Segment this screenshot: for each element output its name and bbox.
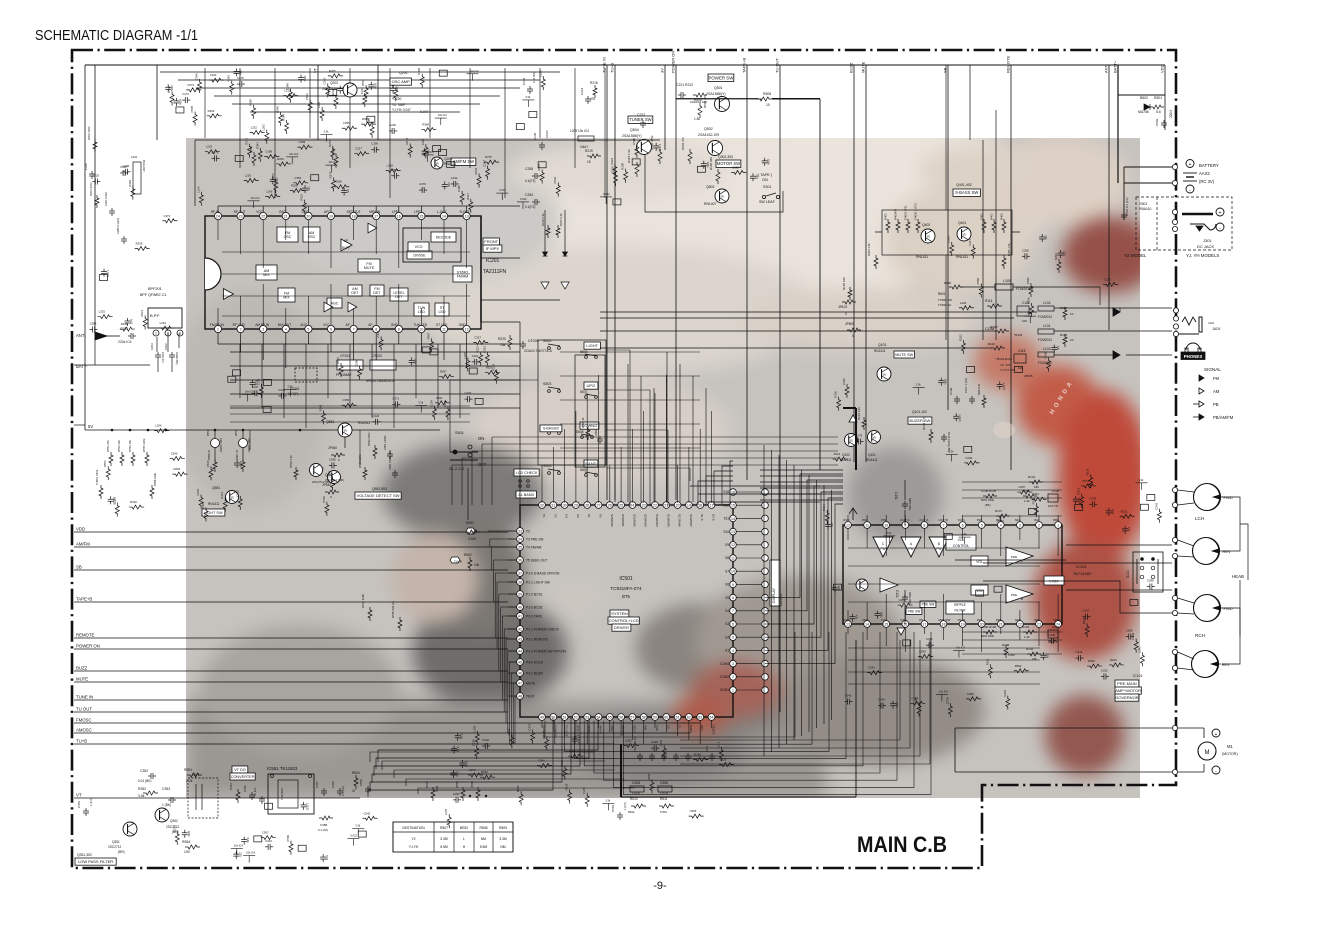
svg-text:C272: C272 — [469, 768, 476, 772]
svg-text:JP540: JP540 — [322, 483, 331, 487]
svg-text:SIGNAL: SIGNAL — [1204, 367, 1221, 372]
svg-text:CONTROL+LCD: CONTROL+LCD — [609, 618, 639, 623]
svg-text:MPX IN: MPX IN — [369, 210, 381, 214]
resistors R507 R508 R509 vertical — [431, 787, 435, 801]
svg-text:22: 22 — [653, 503, 657, 507]
svg-text:C393: C393 — [732, 165, 739, 169]
svg-text:DATA: DATA — [689, 725, 693, 734]
svg-text:R218 6.2k: R218 6.2k — [541, 213, 545, 226]
svg-text:S25/KM0: S25/KM0 — [610, 514, 614, 527]
svg-text:C285 0.1(FZ): C285 0.1(FZ) — [116, 218, 120, 234]
svg-text:C266: C266 — [371, 142, 378, 146]
svg-text:0.1 (FZ): 0.1 (FZ) — [318, 828, 328, 832]
net tag TU+B — [450, 557, 460, 563]
svg-text:C598: C598 — [632, 138, 636, 145]
svg-text:47k: 47k — [1056, 346, 1060, 351]
svg-text:19: 19 — [961, 622, 965, 626]
svg-text:9: 9 — [398, 327, 400, 331]
svg-text:R640: R640 — [944, 281, 952, 285]
svg-text:L: L — [463, 837, 465, 841]
svg-text:COM1: COM1 — [720, 688, 729, 692]
svg-text:AM RF IN: AM RF IN — [255, 323, 270, 327]
IC201 internal wire mesh — [217, 220, 219, 240]
svg-text:C317: C317 — [391, 168, 398, 172]
svg-text:DET: DET — [395, 295, 403, 299]
svg-text:14: 14 — [442, 214, 446, 218]
svg-text:XOUT: XOUT — [632, 725, 636, 734]
label PHONES — [1181, 352, 1205, 360]
wires IC501 top pins upward — [541, 465, 543, 503]
svg-text:Q552,553: Q552,553 — [372, 487, 387, 491]
svg-text:R404 1.5k: R404 1.5k — [867, 243, 871, 256]
svg-text:POWER ON: POWER ON — [76, 644, 100, 649]
svg-text:C104: C104 — [1052, 625, 1060, 629]
component cluster amp right upper — [1089, 503, 1092, 505]
svg-text:Q351: Q351 — [112, 840, 120, 844]
svg-text:R227: R227 — [476, 346, 480, 353]
svg-text:FM RF IN: FM RF IN — [210, 323, 225, 327]
svg-text:C4030.1 (FZ): C4030.1 (FZ) — [914, 203, 918, 220]
svg-text:R369: R369 — [208, 109, 215, 113]
svg-text:8: 8 — [923, 523, 925, 527]
wire sbass feeds — [875, 65, 1020, 340]
svg-text:C361: C361 — [926, 637, 933, 641]
svg-text:CF202: CF202 — [372, 354, 382, 358]
svg-text:2SC2712A: 2SC2712A — [322, 87, 338, 91]
svg-text:1: 1 — [1057, 523, 1059, 527]
svg-text:C232: C232 — [1101, 669, 1108, 673]
svg-text:S18/KM5: S18/KM5 — [666, 514, 670, 527]
svg-text:DC JACK: DC JACK — [1197, 244, 1214, 249]
svg-text:TX528 1K: TX528 1K — [938, 303, 951, 307]
svg-text:TAPE+B: TAPE+B — [76, 597, 92, 602]
svg-text:14: 14 — [865, 622, 869, 626]
svg-text:L278: L278 — [444, 808, 448, 815]
capacitor row C507-C512 — [639, 753, 641, 756]
capacitor C102 680s — [904, 594, 906, 597]
svg-text:0.01: 0.01 — [456, 747, 460, 753]
svg-text:R246: R246 — [1082, 617, 1086, 624]
svg-text:R557 47: R557 47 — [235, 449, 239, 460]
resistor R556 R557 47 — [213, 459, 217, 472]
svg-text:49: 49 — [540, 715, 544, 719]
svg-text:RN1411: RN1411 — [956, 255, 968, 259]
svg-text:57: 57 — [630, 715, 634, 719]
svg-text:C227: C227 — [355, 147, 362, 151]
svg-text:11: 11 — [865, 523, 869, 527]
svg-text:56: 56 — [619, 715, 623, 719]
svg-text:23: 23 — [239, 214, 243, 218]
net tag VDD — [466, 528, 475, 534]
svg-text:VOL: VOL — [976, 560, 983, 564]
svg-text:C590: C590 — [919, 649, 926, 653]
svg-text:RF OUT: RF OUT — [234, 210, 246, 214]
svg-text:T5 SEEK OUT: T5 SEEK OUT — [526, 558, 547, 562]
component cluster right col — [1075, 496, 1077, 499]
svg-text:3.3M: 3.3M — [499, 837, 507, 841]
svg-text:C111 1000p BK): C111 1000p BK) — [947, 432, 951, 452]
svg-text:C573: C573 — [271, 173, 275, 180]
svg-text:L232: L232 — [251, 125, 258, 129]
svg-text:S11: S11 — [724, 517, 730, 521]
svg-text:C299: C299 — [389, 123, 396, 127]
svg-text:RF GND: RF GND — [233, 323, 246, 327]
svg-text:C501 0.1 (FZ): C501 0.1 (FZ) — [1125, 197, 1129, 216]
svg-text:C220: C220 — [373, 414, 380, 418]
svg-text:R565 82k (F): R565 82k (F) — [391, 601, 395, 618]
svg-text:P3-1 BUZR: P3-1 BUZR — [526, 671, 543, 675]
svg-text:R243: R243 — [1110, 658, 1117, 662]
svg-text:11: 11 — [442, 327, 446, 331]
svg-text:C4021 (FZ): C4021 (FZ) — [904, 206, 908, 220]
svg-text:C505: C505 — [632, 781, 640, 785]
svg-text:48: 48 — [518, 694, 522, 698]
svg-text:0.01 BK): 0.01 BK) — [532, 72, 536, 83]
svg-text:Q504: Q504 — [630, 128, 639, 132]
svg-text:1K: 1K — [1070, 338, 1074, 342]
svg-text:2SA1588(Y): 2SA1588(Y) — [706, 92, 726, 96]
wire grid right of LCD — [690, 485, 820, 487]
HONDA lettering on fuel tank — [1049, 381, 1074, 416]
svg-text:C359: C359 — [294, 176, 301, 180]
svg-text:C525: C525 — [172, 825, 176, 832]
svg-text:10: 10 — [731, 570, 735, 574]
svg-text:R515: R515 — [299, 194, 303, 201]
svg-text:0.01: 0.01 — [325, 855, 329, 861]
svg-text:32: 32 — [540, 503, 544, 507]
svg-text:L235: L235 — [421, 139, 425, 146]
svg-text:ST LED: ST LED — [436, 323, 448, 327]
svg-text:R321: R321 — [985, 658, 989, 665]
svg-text:L266: L266 — [266, 189, 273, 193]
svg-text:BUFF: BUFF — [342, 246, 350, 250]
svg-text:0.01: 0.01 — [1111, 509, 1115, 515]
svg-text:C101: C101 — [894, 492, 898, 500]
svg-text:C327: C327 — [474, 335, 481, 339]
svg-text:10s IC4: 10s IC4 — [250, 196, 259, 200]
svg-text:3.5k: 3.5k — [138, 794, 145, 798]
resistor R506 470k — [658, 149, 662, 164]
svg-text:3: 3 — [1019, 523, 1021, 527]
border crossing pins for speakers — [1172, 487, 1177, 492]
svg-text:1 (FZ): 1 (FZ) — [1002, 383, 1006, 390]
svg-text:220/4: 220/4 — [1169, 110, 1173, 118]
svg-text:100s: 100s — [464, 761, 468, 767]
svg-text:0: 0 — [852, 334, 854, 338]
svg-text:R203 100k: R203 100k — [87, 126, 91, 140]
svg-text:3.3k: 3.3k — [525, 95, 531, 99]
svg-text:3.3k: 3.3k — [886, 531, 892, 535]
svg-text:MUTE: MUTE — [861, 61, 866, 73]
svg-text:C354: C354 — [229, 783, 233, 790]
svg-text:R654: R654 — [352, 771, 360, 775]
svg-text:100s: 100s — [880, 612, 884, 618]
svg-text:J301: J301 — [1203, 238, 1212, 243]
big box around VCO/decode — [403, 228, 461, 262]
component cluster between power — [697, 166, 705, 172]
svg-text:R379: R379 — [328, 171, 332, 178]
svg-text:PF IN: PF IN — [958, 618, 966, 622]
svg-text:PW: PW — [862, 518, 867, 522]
svg-text:L294: L294 — [472, 725, 476, 732]
svg-text:C358: C358 — [320, 823, 328, 827]
svg-text:BATT+: BATT+ — [1113, 60, 1118, 73]
svg-text:3V: 3V — [660, 68, 665, 73]
svg-text:3.3k: 3.3k — [1138, 478, 1144, 482]
svg-text:18: 18 — [698, 503, 702, 507]
wire q553 drop — [344, 437, 346, 448]
wire heavy bottom rail — [620, 744, 622, 797]
svg-text:L105: L105 — [1003, 279, 1011, 283]
svg-text:26: 26 — [608, 503, 612, 507]
svg-text:VCC: VCC — [323, 323, 330, 327]
svg-text:C356: C356 — [343, 398, 350, 402]
label AMFM SW box — [451, 158, 476, 165]
svg-text:C217: C217 — [968, 238, 972, 245]
wire power row — [676, 98, 758, 100]
motor M1 — [1198, 742, 1216, 760]
svg-text:CF201: CF201 — [340, 354, 350, 358]
svg-text:0: 0 — [845, 312, 847, 316]
svg-text:4: 4 — [732, 649, 734, 653]
svg-text:53: 53 — [585, 715, 589, 719]
svg-text:100s: 100s — [767, 159, 771, 165]
svg-text:C107 1 (FZ): C107 1 (FZ) — [964, 378, 968, 393]
svg-text:R223: R223 — [537, 163, 541, 170]
svg-text:220: 220 — [447, 182, 451, 187]
svg-text:BE52: BE52 — [460, 826, 468, 830]
svg-text:17: 17 — [922, 622, 926, 626]
svg-text:33: 33 — [518, 529, 522, 533]
svg-text:OSC: OSC — [301, 210, 309, 214]
svg-text:B502: B502 — [1140, 96, 1148, 100]
svg-text:DESTINATION: DESTINATION — [402, 826, 425, 830]
svg-text:SML-110WT: SML-110WT — [219, 438, 223, 453]
svg-text:GOVERNOR: GOVERNOR — [1115, 695, 1138, 700]
ceramic filter CF201 PF5456A7 — [337, 360, 363, 370]
svg-text:GND: GND — [459, 323, 467, 327]
svg-text:(BK): (BK) — [985, 503, 991, 507]
svg-text:C388: C388 — [1147, 578, 1154, 582]
transistor Q351 — [123, 822, 137, 836]
wire grid below IC201 — [239, 344, 241, 398]
svg-text:17: 17 — [374, 214, 378, 218]
svg-text:TA2111FN: TA2111FN — [483, 269, 506, 275]
svg-text:SPE10.7MS2E2D-A: SPE10.7MS2E2D-A — [366, 379, 395, 383]
svg-text:R335: R335 — [565, 783, 569, 790]
svg-text:1000s BK): 1000s BK) — [175, 352, 179, 365]
svg-text:C388: C388 — [90, 322, 97, 326]
svg-text:LCH: LCH — [1195, 516, 1204, 521]
svg-text:LED: LED — [439, 310, 446, 314]
wires phones feed — [600, 312, 1037, 348]
svg-text:100s: 100s — [187, 831, 191, 837]
svg-text:6: 6 — [962, 523, 964, 527]
svg-text:C340: C340 — [120, 165, 127, 169]
svg-text:TH551 C010: TH551 C010 — [95, 469, 99, 485]
ceramic filter CF205 CDA10.7MG77A-A — [522, 341, 524, 344]
svg-text:5.5M: 5.5M — [480, 845, 488, 849]
svg-text:100s: 100s — [414, 358, 418, 364]
svg-text:C220: C220 — [1104, 277, 1111, 281]
svg-text:C382: C382 — [112, 497, 116, 504]
component cluster IC201 below2 — [432, 406, 436, 420]
svg-text:1K: 1K — [1070, 312, 1074, 316]
svg-text:L220: L220 — [960, 301, 967, 305]
svg-text:MUTE SW: MUTE SW — [895, 353, 913, 357]
svg-text:L260: L260 — [317, 101, 321, 108]
wire staircase to LCD connector — [688, 478, 733, 492]
svg-text:64: 64 — [710, 715, 714, 719]
svg-text:L-OUT: L-OUT — [437, 210, 447, 214]
svg-text:R406: R406 — [1000, 213, 1004, 220]
svg-text:C103: C103 — [1052, 489, 1060, 493]
svg-text:PW: PW — [977, 618, 982, 622]
svg-text:19: 19 — [687, 503, 691, 507]
svg-text:BT5: BT5 — [622, 594, 630, 599]
wire tuner row — [195, 139, 660, 141]
svg-text:ON: ON — [478, 436, 484, 441]
svg-text:10s IC4: 10s IC4 — [438, 113, 447, 117]
svg-text:PRE: PRE — [1011, 555, 1017, 559]
svg-text:10: 10 — [419, 327, 423, 331]
wire top VDD bus — [85, 64, 1165, 66]
svg-text:60: 60 — [664, 715, 668, 719]
svg-text:RN1411: RN1411 — [866, 458, 878, 462]
svg-text:R123 10k: R123 10k — [857, 407, 861, 420]
svg-text:6: 6 — [732, 622, 734, 626]
label TUNER SW — [628, 116, 653, 123]
svg-text:C221: C221 — [210, 73, 217, 77]
svg-text:MIX: MIX — [263, 273, 270, 277]
svg-text:R289: R289 — [249, 99, 253, 106]
svg-text:P1-0 S-BASS OFF/ON: P1-0 S-BASS OFF/ON — [526, 571, 560, 575]
svg-text:C244: C244 — [1076, 650, 1083, 654]
svg-text:R553 15k: R553 15k — [128, 439, 132, 452]
svg-text:C207 0.022: C207 0.022 — [104, 192, 108, 206]
svg-text:SYSTEM: SYSTEM — [611, 611, 627, 616]
svg-text:VCTL: VCTL — [958, 518, 966, 522]
svg-text:IC551 TK11823: IC551 TK11823 — [267, 766, 298, 771]
svg-text:10/4 TN: 10/4 TN — [1048, 504, 1058, 508]
svg-text:Q401,402: Q401,402 — [956, 183, 972, 187]
svg-text:BUZER SW: BUZER SW — [909, 418, 930, 423]
svg-text:VCC: VCC — [256, 210, 263, 214]
svg-text:R504 47k: R504 47k — [681, 137, 685, 150]
svg-text:C530: C530 — [206, 460, 210, 467]
svg-text:ON: ON — [762, 178, 768, 182]
svg-text:220s IC4: 220s IC4 — [161, 352, 165, 363]
component cluster tuner top-left — [237, 83, 240, 85]
svg-text:L229: L229 — [720, 758, 727, 762]
photo watermark — [170, 118, 1160, 820]
svg-text:9: 9 — [732, 583, 734, 587]
svg-text:47k: 47k — [307, 186, 311, 191]
svg-text:IC101: IC101 — [1076, 564, 1087, 569]
svg-text:S6: S6 — [725, 583, 729, 587]
svg-text:1.5k: 1.5k — [694, 117, 700, 121]
svg-text:3.3k: 3.3k — [418, 401, 424, 405]
svg-text:Q302,303: Q302,303 — [718, 155, 733, 159]
svg-text:AM IN: AM IN — [599, 725, 603, 734]
svg-text:C278: C278 — [212, 150, 219, 154]
svg-text:R99 8.2k: R99 8.2k — [977, 383, 981, 395]
svg-text:R402: R402 — [884, 213, 888, 220]
svg-text:0.1(FZ): 0.1(FZ) — [525, 205, 535, 209]
svg-text:R511: R511 — [660, 797, 668, 801]
svg-text:C540: C540 — [171, 451, 178, 455]
svg-text:PHONES: PHONES — [1184, 354, 1203, 359]
svg-text:T2: T2 — [526, 529, 530, 533]
svg-text:C109: C109 — [949, 387, 953, 395]
svg-text:5.5M: 5.5M — [440, 845, 448, 849]
svg-text:TUNE IN: TUNE IN — [602, 57, 607, 73]
svg-text:3.3k: 3.3k — [287, 385, 293, 389]
resistor R220 15k — [508, 335, 512, 350]
svg-text:OVD: OVD — [862, 618, 869, 622]
svg-text:OVD: OVD — [843, 618, 850, 622]
svg-text:CE: CE — [666, 725, 670, 729]
svg-text:LIGHT SW: LIGHT SW — [204, 511, 223, 515]
svg-text:C353: C353 — [162, 787, 170, 791]
svg-text:SB: SB — [76, 565, 82, 570]
svg-text:R221: R221 — [121, 322, 128, 326]
svg-text:C506: C506 — [660, 781, 668, 785]
svg-text:C355: C355 — [367, 118, 371, 125]
svg-text:OSC: OSC — [284, 235, 292, 239]
svg-text:IC501: IC501 — [619, 576, 633, 582]
svg-text:S1-5: S1-5 — [700, 514, 704, 521]
svg-text:C385: C385 — [457, 185, 461, 192]
svg-text:2SA1588(Y): 2SA1588(Y) — [622, 134, 642, 138]
svg-text:S503: S503 — [543, 382, 551, 386]
svg-text:3.3k: 3.3k — [949, 449, 955, 453]
svg-text:DET: DET — [351, 291, 359, 295]
svg-text:ANT: ANT — [1104, 64, 1109, 73]
svg-text:AAX2: AAX2 — [1199, 171, 1210, 176]
wire switch cluster feeds — [450, 350, 690, 468]
svg-text:R390: R390 — [167, 85, 171, 92]
svg-text:G501: G501 — [1139, 202, 1147, 206]
svg-text:R556: R556 — [103, 460, 107, 467]
svg-text:Y2: Y2 — [411, 837, 415, 841]
svg-text:R555 120k: R555 120k — [142, 438, 146, 452]
transistor Q202 RN2411 — [431, 157, 443, 169]
svg-text:C370: C370 — [419, 182, 426, 186]
svg-text:S24/KM1: S24/KM1 — [621, 514, 625, 527]
svg-text:C289: C289 — [265, 150, 272, 154]
svg-text:R103: R103 — [1022, 489, 1030, 493]
svg-text:REV: REV — [1223, 549, 1232, 554]
svg-text:VOLTAGE DETECT SW: VOLTAGE DETECT SW — [357, 493, 400, 498]
svg-text:R534: R534 — [474, 167, 478, 174]
svg-text:R536: R536 — [1027, 297, 1031, 304]
svg-text:1 (BK): 1 (BK) — [162, 803, 171, 807]
svg-text:BPF201: BPF201 — [148, 287, 162, 291]
svg-text:R219: R219 — [585, 149, 593, 153]
arrow down open — [897, 628, 905, 635]
svg-text:Q401: Q401 — [958, 221, 966, 225]
svg-text:23: 23 — [1037, 622, 1041, 626]
svg-text:R587: R587 — [426, 332, 430, 339]
svg-text:0.01: 0.01 — [246, 838, 250, 844]
svg-text:820s 180k: 820s 180k — [981, 498, 995, 502]
svg-text:L235: L235 — [256, 378, 260, 385]
wire nested loops bottom left — [378, 718, 598, 762]
svg-text:L201: L201 — [131, 155, 138, 159]
svg-text:5: 5 — [307, 327, 309, 331]
svg-text:C289: C289 — [298, 140, 305, 144]
